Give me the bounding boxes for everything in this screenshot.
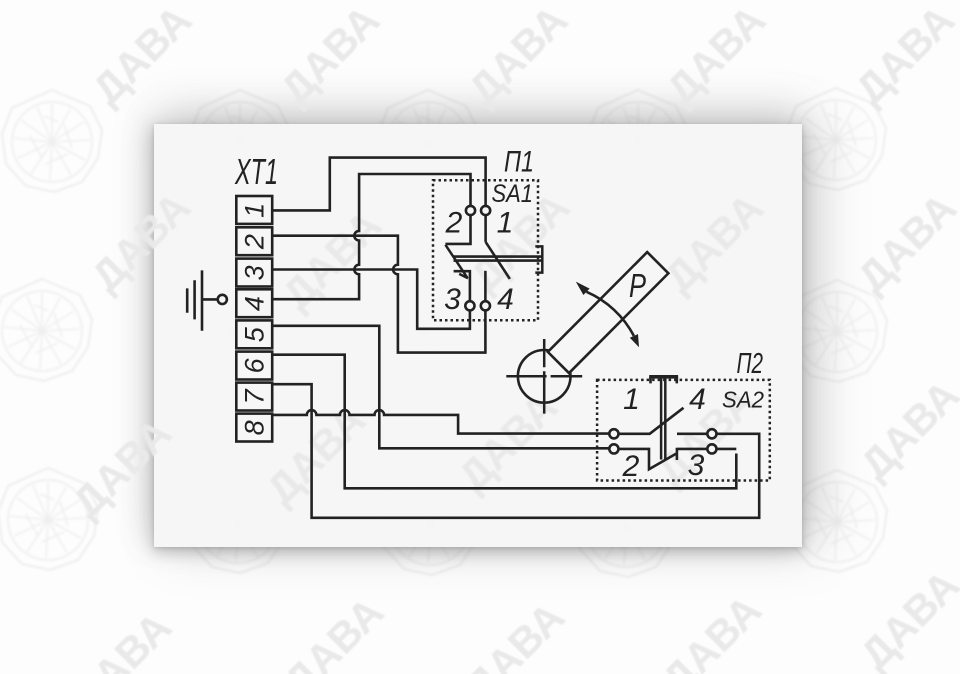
svg-text:Р: Р (629, 267, 646, 304)
SA1 pin 2 contact circle (466, 206, 475, 215)
SA2 link double line (661, 378, 665, 460)
svg-text:3: 3 (688, 449, 705, 482)
svg-text:2: 2 (240, 234, 270, 250)
svg-text:4: 4 (689, 383, 706, 416)
svg-text:1: 1 (623, 383, 640, 416)
dotted box П1 (433, 180, 538, 320)
terminal numbers 1-8 (240, 203, 270, 436)
SA2 blade A-4 (619, 408, 684, 434)
wire T6 to SA2 contact D (272, 355, 736, 489)
svg-text:П2: П2 (737, 348, 764, 380)
SA2 contact D circle (707, 444, 716, 453)
wire T1 to SA1 pin1 (272, 158, 485, 211)
svg-text:SA2: SA2 (722, 387, 764, 413)
SA2 contact C circle (707, 429, 716, 438)
SA2 contact C stub (677, 432, 707, 435)
wire T4 to SA1 pin2 (272, 174, 470, 299)
SA1 pin 3 contact circle (465, 301, 474, 310)
svg-text:4: 4 (497, 283, 514, 316)
watermark emblem row 2 (0, 279, 92, 381)
svg-text:1: 1 (497, 207, 514, 240)
SA1 mechanical link double line (454, 257, 543, 261)
svg-text:5: 5 (240, 326, 270, 342)
SA2 link T-bar (649, 375, 678, 379)
svg-text:2: 2 (445, 207, 463, 240)
lever pivot circle (518, 350, 571, 403)
wire T8 to SA2 contact A (272, 410, 609, 434)
svg-text:П1: П1 (504, 146, 534, 179)
svg-text:4: 4 (240, 296, 270, 311)
SA1 pin2 fixed lead (445, 215, 470, 244)
SA2 contact A circle (609, 429, 618, 438)
SA1 pin 4 contact circle (481, 301, 490, 310)
svg-text:3: 3 (444, 283, 461, 316)
pivot crosshair horizontal (506, 375, 582, 378)
rotation arc (587, 292, 634, 336)
svg-text:1: 1 (240, 203, 270, 218)
svg-text:8: 8 (240, 420, 270, 435)
SA1 blade 2-3 (445, 245, 468, 278)
wire T5 to SA2 contact B (272, 326, 609, 449)
watermark emblem row 3 (0, 468, 98, 570)
svg-text:SA1: SA1 (492, 180, 534, 208)
SA1 pin 1 contact circle (481, 206, 490, 215)
wire T3 to SA1 pin3 (272, 270, 470, 329)
svg-text:6: 6 (240, 357, 270, 373)
lever handle rectangle (548, 252, 669, 373)
SA1 pin labels 2 1 3 4 (444, 207, 514, 317)
SA1 pin3 fixed lead (454, 271, 470, 301)
svg-text:7: 7 (240, 388, 270, 404)
arc arrowhead upper (576, 282, 590, 295)
SA2 pin labels 1 4 2 3 (622, 383, 706, 483)
watermark emblem row 1 (2, 90, 102, 192)
SA1 blade 1-4 (486, 242, 510, 279)
wire T2 to SA1 pin4 (272, 236, 485, 353)
svg-text:2: 2 (622, 450, 640, 483)
SA2 contact B circle (609, 444, 618, 453)
SA2 blade B lower (619, 449, 677, 469)
svg-text:3: 3 (240, 265, 270, 280)
arc arrowhead lower (630, 334, 639, 347)
SA1 pin4 fixed lead (484, 271, 487, 301)
SA1 link end bracket (535, 246, 542, 274)
SA1 pin1 lead (484, 215, 487, 242)
page (154, 124, 802, 547)
wire T7 to SA2 contact C (272, 384, 759, 518)
terminal block XT1 (236, 196, 272, 442)
ground symbol (187, 270, 227, 330)
svg-text:XT1: XT1 (234, 151, 278, 192)
SA2 contact D stub (677, 448, 707, 460)
dotted box П2 (597, 380, 770, 481)
pivot crosshair vertical (543, 339, 546, 414)
